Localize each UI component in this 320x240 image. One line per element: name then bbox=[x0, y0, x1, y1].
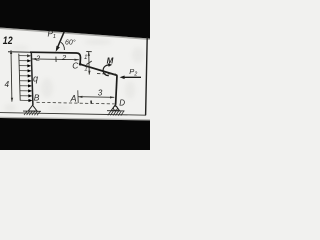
moment M arrowhead bbox=[108, 63, 112, 67]
top black band bbox=[0, 0, 150, 39]
dashed baseline B-D bbox=[37, 102, 115, 104]
top band fuzzy edge bbox=[0, 28, 150, 41]
dim 1+1 bottom arrow bbox=[88, 71, 90, 75]
support B ground line bbox=[23, 110, 41, 112]
force P1 arrowhead bbox=[56, 46, 60, 52]
svg-text:12: 12 bbox=[3, 35, 13, 47]
support D ground line bbox=[107, 110, 125, 112]
dim 1+1 middle tick bbox=[86, 61, 91, 65]
top dim left arrow bbox=[32, 58, 36, 60]
right vertical member to D bbox=[116, 75, 117, 105]
bottom black band bbox=[0, 118, 150, 150]
distributed load arrows q bbox=[19, 55, 32, 102]
svg-text:3: 3 bbox=[98, 88, 103, 97]
bottom band fuzzy edge bbox=[0, 117, 150, 121]
svg-text:q: q bbox=[33, 73, 38, 83]
svg-text:2: 2 bbox=[35, 53, 41, 62]
svg-text:M: M bbox=[107, 56, 114, 65]
left vertical member bbox=[31, 52, 33, 105]
dashed extension at joint level bbox=[97, 73, 116, 76]
top dim middle tick bbox=[55, 57, 57, 62]
figure bottom border line bbox=[0, 113, 146, 116]
svg-text:D: D bbox=[119, 99, 125, 108]
dim 1+1 top arrow bbox=[88, 52, 90, 56]
figure right border line bbox=[146, 38, 148, 116]
dim 3 right arrow bbox=[110, 96, 114, 98]
dim 4 bottom arrow bbox=[11, 98, 13, 102]
svg-text:C: C bbox=[72, 60, 79, 70]
svg-text:1: 1 bbox=[84, 66, 87, 73]
svg-text:B: B bbox=[34, 93, 40, 103]
top member extension line (left) bbox=[8, 51, 32, 54]
moment M arc bbox=[103, 65, 110, 76]
top dim right arrow bbox=[75, 59, 79, 61]
paper noise bbox=[4, 39, 144, 112]
support B triangle bbox=[28, 105, 37, 111]
support D triangle bbox=[111, 105, 119, 111]
distributed load tail line bbox=[19, 54, 20, 101]
dim 4 top arrow bbox=[10, 50, 12, 54]
60 degree arc bbox=[61, 42, 65, 50]
top horizontal member bbox=[30, 52, 81, 64]
svg-text:A: A bbox=[70, 94, 77, 104]
joint C dot bbox=[79, 63, 82, 66]
sloped member C to joint bbox=[80, 64, 117, 75]
svg-text:1: 1 bbox=[84, 54, 87, 61]
dimension 4 vertical line bbox=[10, 50, 13, 101]
force P2 arrowhead bbox=[120, 76, 125, 80]
support D hatching bbox=[108, 111, 124, 116]
svg-text:2: 2 bbox=[61, 53, 67, 62]
force P2 line bbox=[122, 76, 141, 78]
dim 1+1 top tick bbox=[86, 51, 92, 53]
dimension 3 line bbox=[78, 96, 114, 99]
top dimension line 2+2 bbox=[32, 58, 79, 61]
support D roller circle bbox=[113, 106, 117, 110]
svg-text:60°: 60° bbox=[65, 39, 76, 47]
small ink tick on baseline bbox=[90, 101, 92, 104]
dimension 3 extension line at A bbox=[77, 90, 79, 103]
vertical dimension 1+1 line bbox=[88, 52, 91, 75]
support B hatching bbox=[24, 111, 40, 115]
force P1 line bbox=[57, 32, 65, 50]
dim 3 left arrow bbox=[78, 96, 82, 98]
svg-text:4: 4 bbox=[5, 80, 10, 89]
